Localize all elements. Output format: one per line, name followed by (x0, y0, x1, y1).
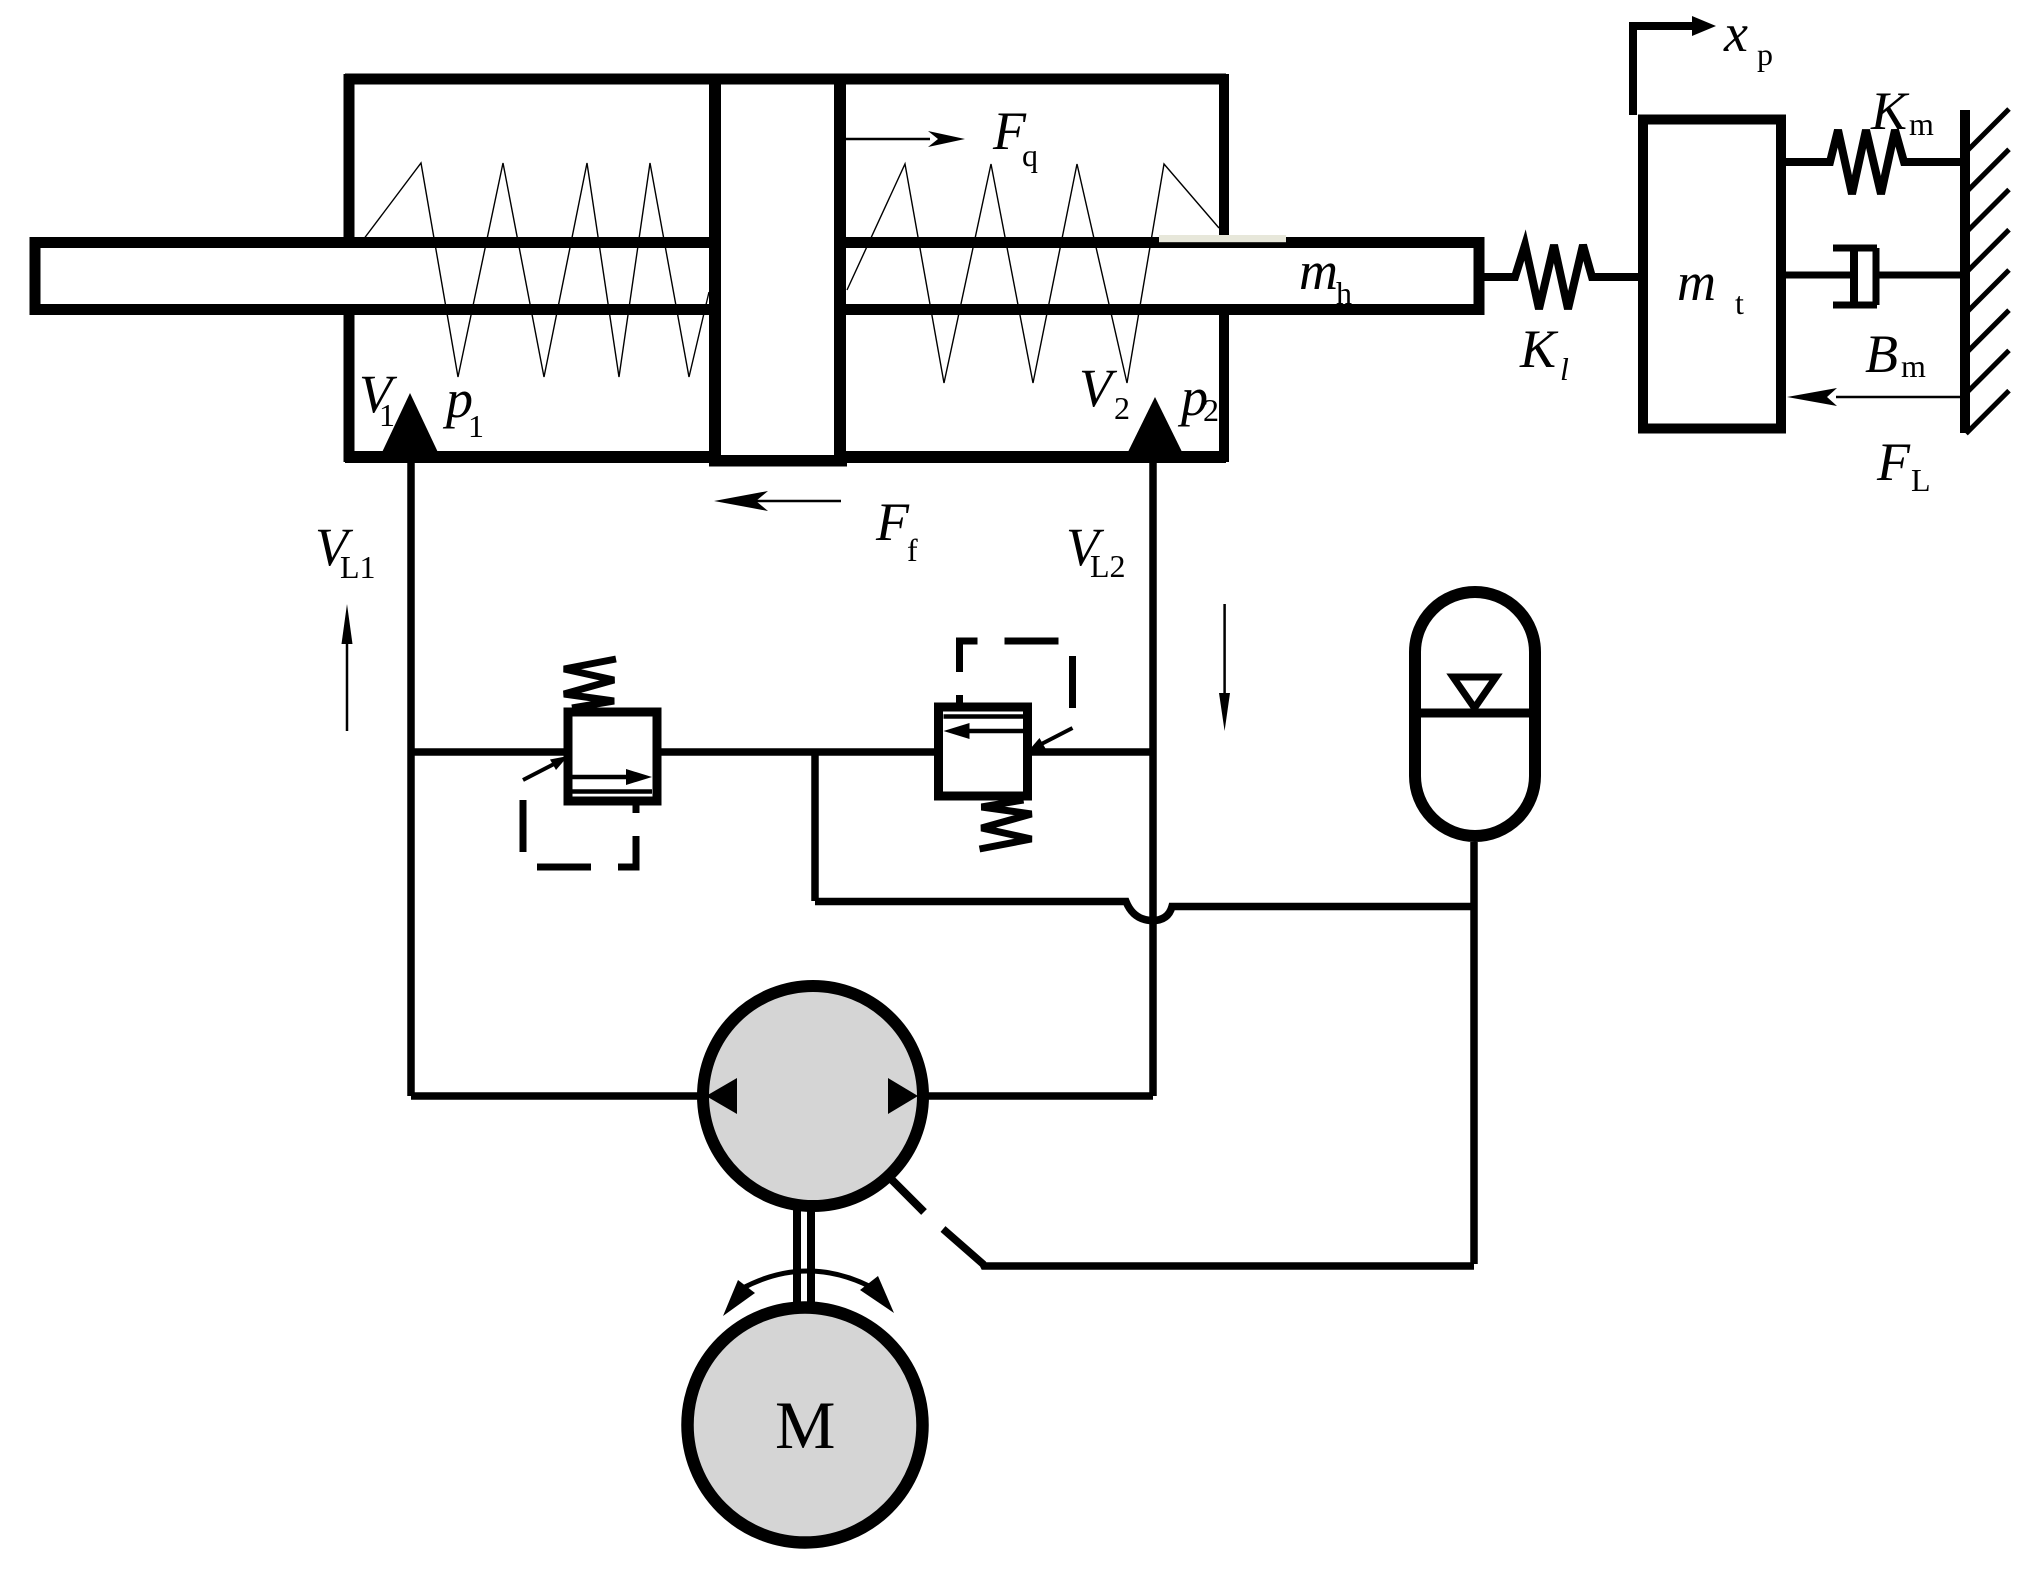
svg-text:m: m (1299, 241, 1338, 301)
svg-text:m: m (1901, 348, 1926, 384)
svg-text:2: 2 (1114, 390, 1130, 426)
svg-text:2: 2 (1203, 392, 1219, 428)
svg-text:q: q (1022, 137, 1038, 173)
svg-text:p: p (1757, 36, 1773, 72)
svg-text:L: L (1911, 462, 1931, 498)
svg-text:L2: L2 (1090, 548, 1126, 584)
svg-text:m: m (1677, 252, 1716, 312)
svg-text:t: t (1735, 285, 1744, 321)
svg-text:f: f (907, 532, 918, 568)
svg-text:l: l (1560, 351, 1569, 387)
svg-text:M: M (775, 1387, 835, 1463)
svg-text:F: F (1876, 432, 1911, 492)
svg-text:m: m (1909, 106, 1934, 142)
svg-text:F: F (875, 492, 910, 552)
svg-text:K: K (1870, 81, 1910, 141)
svg-text:1: 1 (468, 408, 484, 444)
svg-text:B: B (1865, 324, 1898, 384)
svg-text:h: h (1336, 275, 1352, 311)
svg-text:L1: L1 (340, 549, 376, 585)
svg-text:1: 1 (379, 397, 395, 433)
svg-text:K: K (1519, 319, 1559, 379)
svg-text:x: x (1723, 3, 1748, 63)
